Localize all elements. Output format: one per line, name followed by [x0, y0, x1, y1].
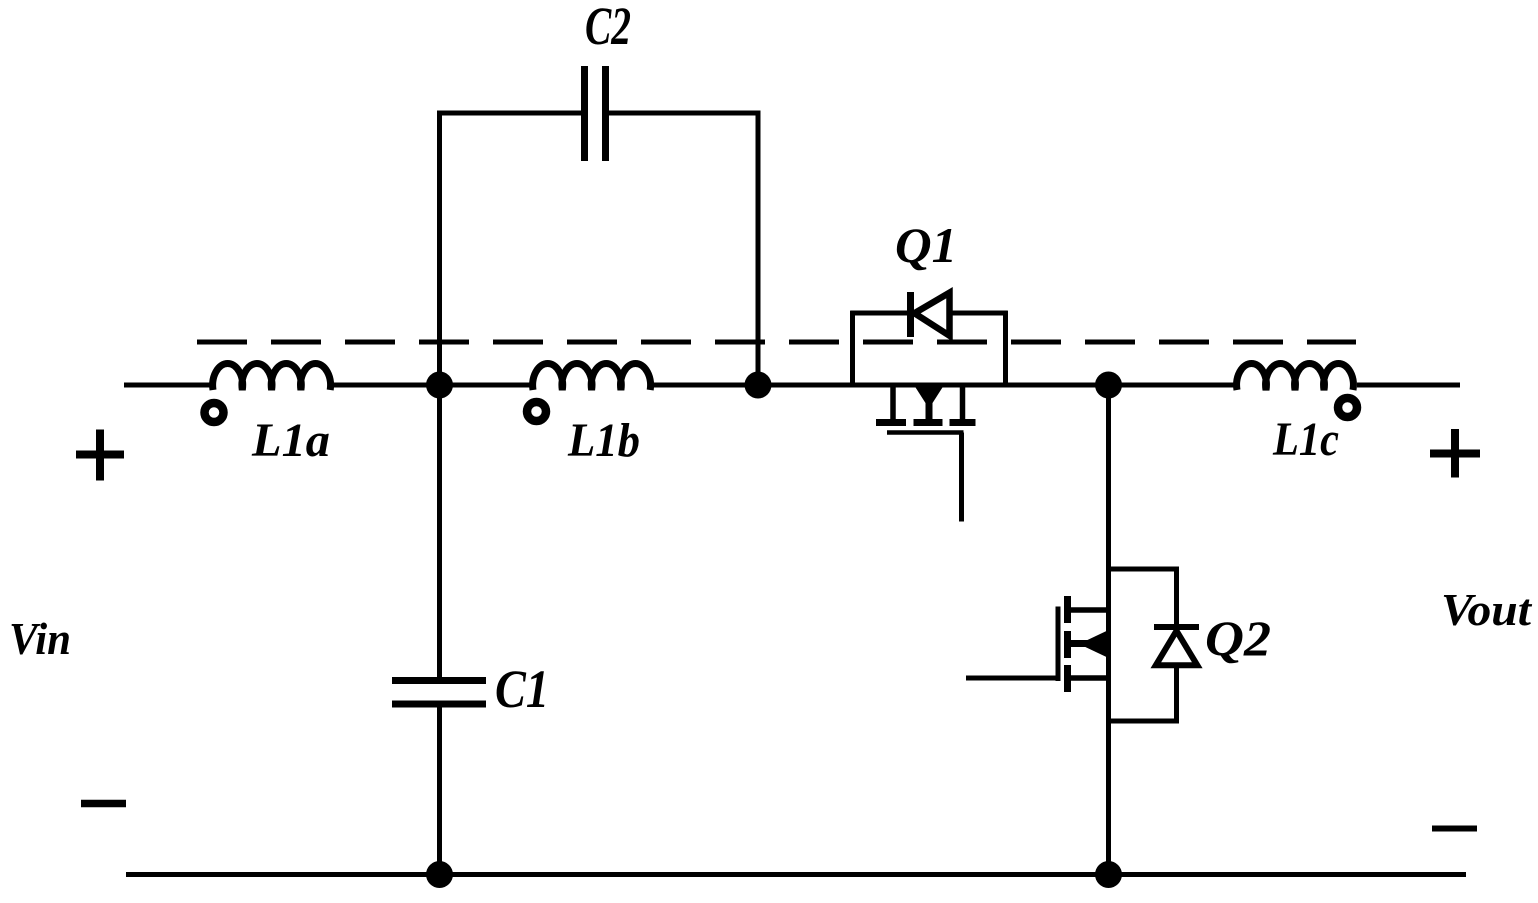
- input minus sign: [81, 800, 126, 808]
- node A junction dot: [426, 372, 453, 399]
- wire node B to node C: [758, 383, 1110, 388]
- svg-text:Q1: Q1: [895, 217, 957, 273]
- svg-text:Vin: Vin: [9, 614, 71, 664]
- Q2 source stub: [1069, 675, 1109, 681]
- transistor Q1: [850, 217, 1007, 522]
- Q1 channel bars: [876, 419, 906, 426]
- svg-text:Vout: Vout: [1441, 585, 1533, 635]
- svg-text:C1: C1: [495, 659, 549, 719]
- Q1 gate plate: [887, 430, 964, 435]
- C1 branch lower wire: [437, 704, 442, 875]
- Q2 box top wire: [1109, 567, 1179, 572]
- node B junction dot: [745, 372, 772, 399]
- Q1 gate lead: [959, 433, 964, 522]
- Q1 drain stub: [960, 385, 966, 421]
- Q2 body diode cathode bar: [1154, 624, 1199, 630]
- Q2 box bottom wire: [1109, 719, 1180, 724]
- C2 branch right riser: [756, 111, 761, 386]
- Q2 drain stub: [1069, 607, 1109, 613]
- Q2 gate lead: [966, 676, 1058, 681]
- Q2 body diode triangle: [1156, 631, 1198, 666]
- output minus sign: [1432, 826, 1477, 832]
- svg-text:L1b: L1b: [567, 414, 640, 467]
- wire L1a to node A: [334, 383, 441, 388]
- inductor L1b: [533, 364, 651, 390]
- polarity dot L1b: [527, 402, 546, 421]
- bottom node D junction dot: [426, 861, 453, 888]
- capacitor C1 bottom plate: [392, 701, 486, 708]
- Q1 source stub: [890, 385, 896, 421]
- output plus sign: [1430, 429, 1480, 478]
- capacitor C2 right plate: [602, 66, 609, 161]
- bottom node E junction dot: [1095, 861, 1122, 888]
- Q2 box right lower: [1174, 663, 1179, 724]
- wire L1b to node B: [654, 383, 760, 388]
- input plus sign: [76, 430, 124, 481]
- node C junction dot: [1095, 372, 1122, 399]
- bottom rail: [126, 872, 1466, 877]
- Q1 body arrow: [913, 384, 945, 409]
- capacitor C2 left plate: [581, 66, 588, 161]
- polarity dot L1a: [205, 403, 224, 422]
- Q2 body arrow: [1069, 640, 1109, 647]
- svg-text:C2: C2: [585, 0, 631, 56]
- svg-text:L1a: L1a: [251, 414, 330, 467]
- wire: input lead: [124, 383, 211, 388]
- Q1 body diode cathode bar: [907, 292, 914, 337]
- polarity dot L1c: [1338, 398, 1357, 417]
- Q1 box top-right wire: [947, 311, 1008, 316]
- capacitor C1 top plate: [392, 677, 486, 684]
- C1 branch upper wire: [437, 385, 442, 680]
- inductor L1a: [213, 364, 331, 390]
- Q1 body diode triangle: [915, 293, 950, 336]
- C2 top-left wire: [437, 111, 584, 116]
- C2 top-right wire: [606, 111, 760, 116]
- coupling dashed line: [197, 340, 1356, 345]
- Q2 channel bars: [1064, 596, 1071, 623]
- Q2 drain-source line: [1106, 385, 1111, 875]
- Q2 box right upper: [1174, 567, 1179, 627]
- Q1 box top-left wire: [850, 311, 908, 316]
- wire node A to L1b: [440, 383, 532, 388]
- wire node C to L1c: [1109, 383, 1236, 388]
- svg-text:Q2: Q2: [1205, 610, 1271, 666]
- transistor Q2: [966, 385, 1271, 875]
- Q1 box right side: [1003, 311, 1008, 385]
- C2 branch left riser: [437, 111, 442, 386]
- Q2 gate plate: [1056, 607, 1061, 682]
- wire L1c to output lead: [1357, 383, 1460, 388]
- Q1 box left side: [850, 311, 855, 385]
- svg-text:L1c: L1c: [1272, 413, 1339, 466]
- inductor L1c: [1237, 364, 1354, 390]
